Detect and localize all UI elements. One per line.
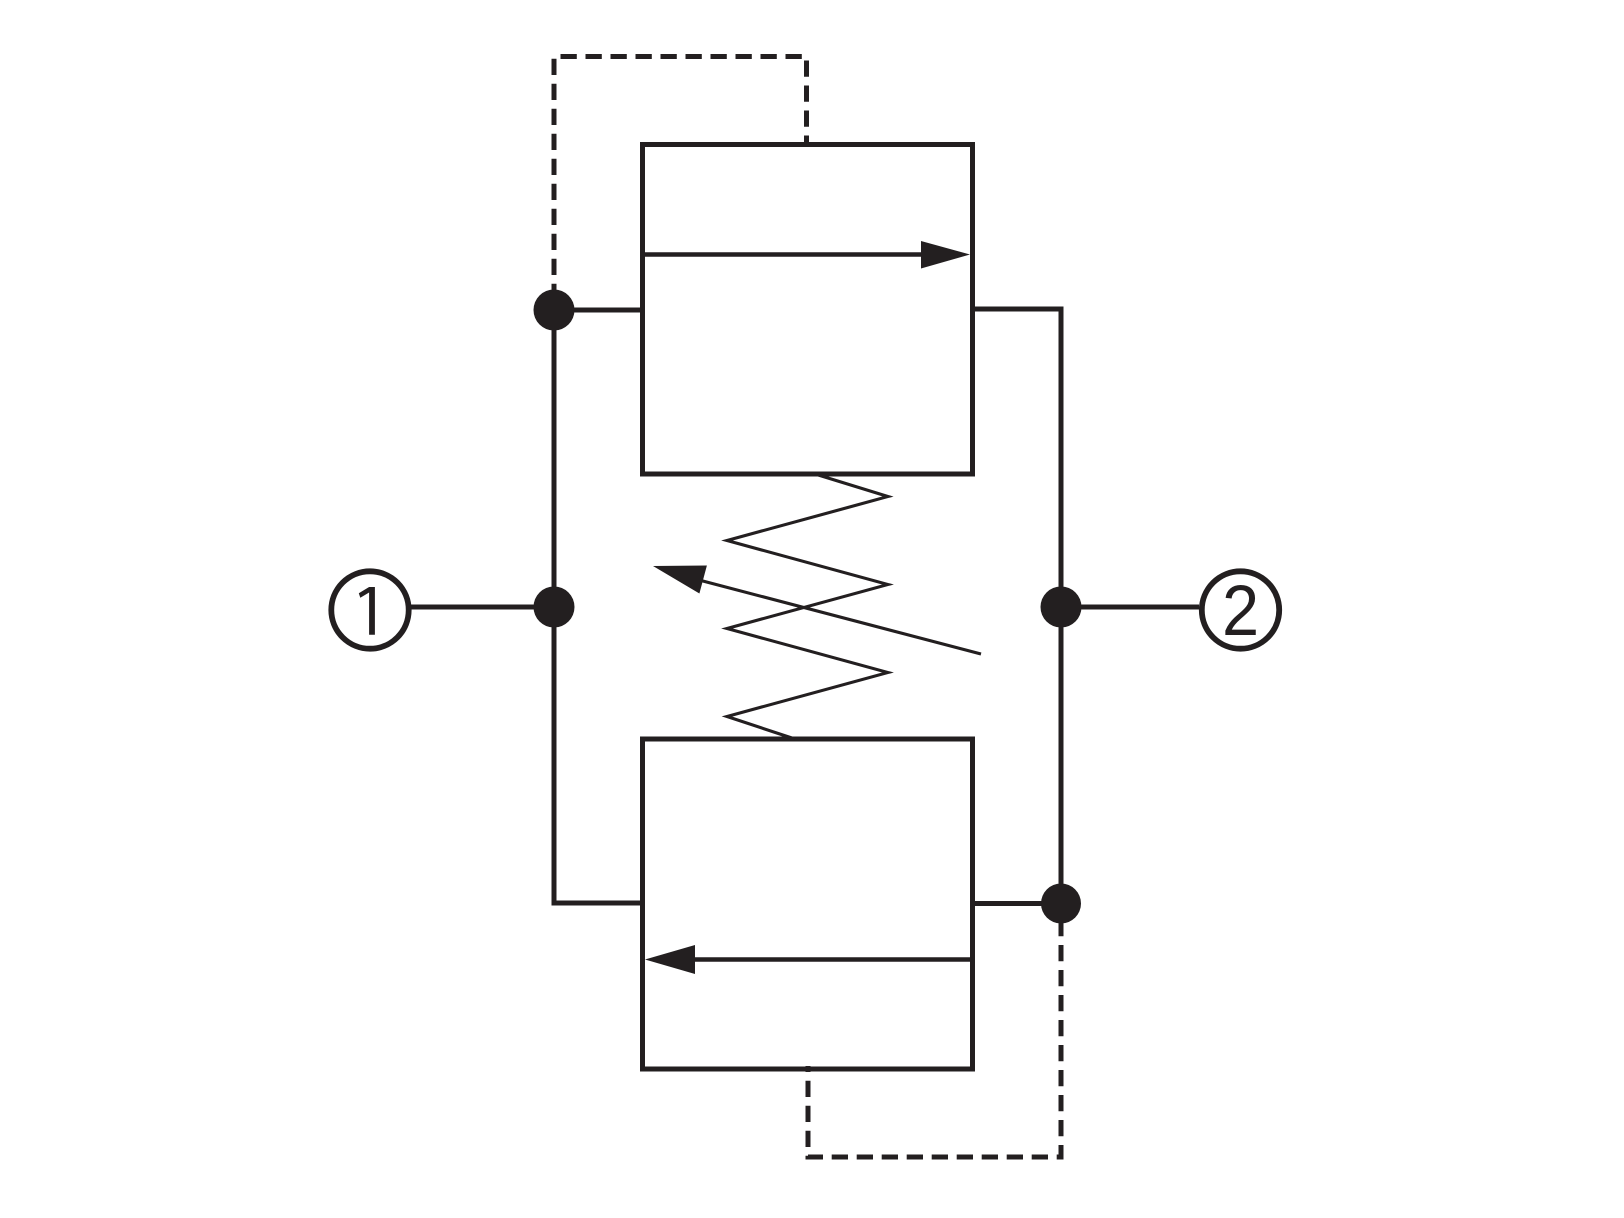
wire: stub node1-top to valve V1 left edge	[554, 308, 643, 313]
wire: pilot dashed line top-left (node 1 to top of valve V1)	[554, 57, 807, 301]
svg-text:2: 2	[1222, 571, 1259, 650]
spring (zigzag between valves)	[727, 474, 888, 739]
wire: pilot dashed line bottom-right (node at port2 branch to bottom of valve V2)	[808, 920, 1061, 1157]
wire: port 2 lead line	[1061, 605, 1199, 610]
valve V2 flow arrow (right to left)	[691, 957, 973, 962]
wire: port 1 lead line	[411, 605, 554, 610]
node: junction dot node2-bottom	[1041, 884, 1081, 924]
relief valve V1 body (top box)	[643, 145, 973, 475]
port 1 label	[359, 587, 375, 635]
wire: stub valve V2 right edge to node2-bottom	[973, 901, 1062, 906]
node: junction dot at port 1	[534, 587, 575, 628]
node: junction dot at port 2	[1041, 587, 1082, 628]
adjustment arrow through spring	[699, 580, 981, 654]
wire: left vertical bus (port 1)	[554, 310, 643, 903]
wire: right vertical bus (port 2)	[973, 309, 1062, 904]
node: junction dot node1-top	[534, 290, 575, 331]
relief valve V2 body (bottom box)	[643, 739, 973, 1069]
port 2 symbol circle	[1202, 571, 1279, 648]
port 1 symbol circle	[331, 571, 408, 648]
valve V1 flow arrow (left to right)	[643, 252, 925, 257]
